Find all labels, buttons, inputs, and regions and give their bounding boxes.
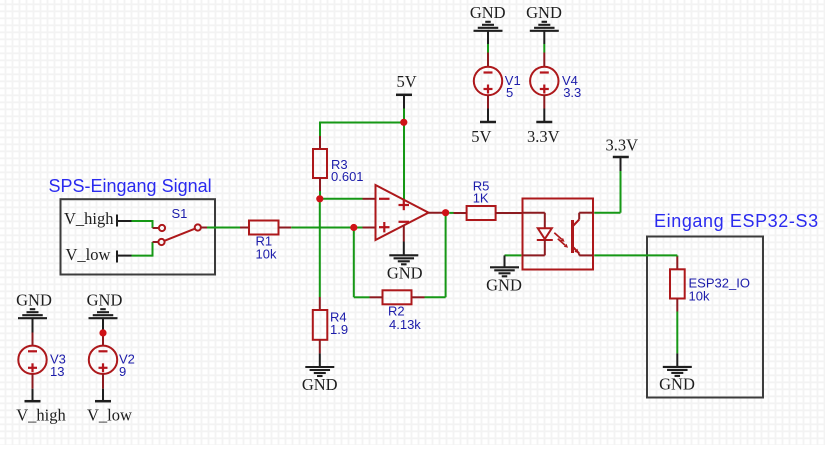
svg-text:13: 13: [50, 364, 64, 379]
svg-text:GND: GND: [659, 374, 695, 393]
svg-text:5V: 5V: [471, 127, 491, 146]
svg-text:S1: S1: [172, 206, 188, 221]
svg-text:0.601: 0.601: [331, 169, 364, 184]
svg-text:Eingang ESP32-S3: Eingang ESP32-S3: [654, 211, 819, 231]
svg-text:1.9: 1.9: [330, 322, 348, 337]
svg-text:V_high: V_high: [64, 209, 114, 228]
svg-text:V_high: V_high: [16, 406, 66, 425]
svg-text:5V: 5V: [397, 72, 417, 91]
svg-text:3.3V: 3.3V: [606, 135, 639, 154]
svg-text:GND: GND: [87, 290, 123, 309]
svg-text:SPS-Eingang Signal: SPS-Eingang Signal: [49, 176, 212, 196]
svg-text:GND: GND: [486, 276, 522, 295]
svg-text:5: 5: [506, 85, 513, 100]
svg-text:1K: 1K: [473, 191, 489, 206]
svg-text:10k: 10k: [256, 247, 277, 262]
svg-text:10k: 10k: [689, 288, 710, 303]
svg-text:9: 9: [119, 364, 126, 379]
svg-text:GND: GND: [302, 375, 338, 394]
svg-text:3.3: 3.3: [563, 85, 581, 100]
svg-text:GND: GND: [387, 263, 423, 282]
svg-text:3.3V: 3.3V: [527, 127, 560, 146]
svg-text:GND: GND: [16, 290, 52, 309]
svg-text:4.13k: 4.13k: [389, 317, 421, 332]
svg-text:GND: GND: [526, 3, 562, 22]
svg-text:V_low: V_low: [87, 406, 132, 425]
svg-text:GND: GND: [470, 3, 506, 22]
svg-text:V_low: V_low: [66, 245, 111, 264]
